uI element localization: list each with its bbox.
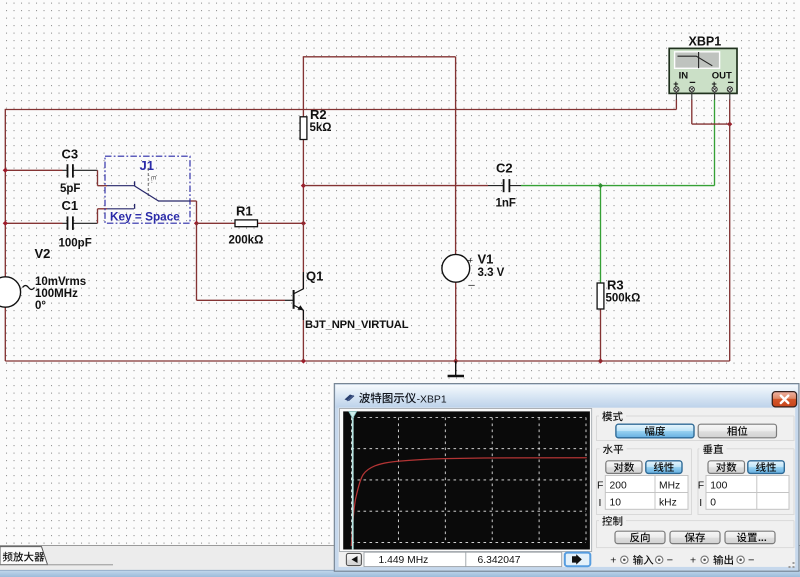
svg-text:10mVrms: 10mVrms — [35, 276, 86, 288]
svg-text:200kΩ: 200kΩ — [229, 235, 264, 247]
capacitor C1 — [59, 198, 92, 250]
svg-text:C3: C3 — [62, 146, 79, 161]
node: input tee at C3 — [3, 168, 8, 173]
readout right arrow button (focused) — [565, 553, 591, 567]
wire: R1 right lead to collector column — [258, 221, 307, 226]
group box 水平 (Horizontal) — [597, 444, 692, 514]
wire: base node down to Q1 base — [197, 223, 294, 300]
wire: VCC loop R2 top to V1 plus — [303, 57, 456, 255]
svg-text:1nF: 1nF — [496, 197, 516, 209]
group box 控制 (Control) — [597, 516, 795, 548]
resistor R3 500k — [597, 277, 640, 309]
svg-text:+: + — [690, 555, 696, 567]
svg-text:E..: E.. — [150, 176, 156, 184]
wire: XBP1 IN- to OUT- ground link — [692, 100, 733, 127]
instrument XBP1 (Bode plotter icon) — [669, 35, 737, 100]
capacitor C2 — [496, 161, 516, 210]
readout left arrow button — [346, 553, 361, 565]
wire: collector column (R2 bottom to Q1 collector) — [301, 140, 306, 290]
node: input tee at C1 — [3, 221, 8, 226]
readout fields — [364, 552, 562, 566]
node A: switch common to base/R1 junction — [190, 201, 199, 226]
button 对数 H (Log) — [606, 461, 642, 474]
svg-text:kHz: kHz — [659, 498, 677, 509]
button 对数 V (Log) — [708, 461, 745, 474]
bode magnitude curve — [351, 458, 587, 546]
sheet tab bar — [0, 546, 800, 571]
svg-text:0°: 0° — [35, 300, 46, 312]
source V2 10mVrms 100MHz AC — [0, 246, 86, 312]
svg-text:100MHz: 100MHz — [35, 288, 78, 300]
svg-text:-XBP1: -XBP1 — [417, 394, 447, 405]
svg-text:...: ... — [758, 532, 767, 544]
wire: ground rail (bottom horizontal) — [5, 358, 729, 363]
window title text 波特图示仪-XBP1 — [359, 393, 447, 406]
svg-text:10: 10 — [610, 498, 622, 509]
resistor R1 200k — [229, 203, 264, 246]
terminal row 输入/输出 — [610, 555, 754, 567]
resize grip — [789, 562, 795, 568]
svg-text:J1: J1 — [140, 158, 154, 173]
plot grid (dashed) — [352, 418, 587, 543]
button 幅度 (Magnitude, selected) — [616, 424, 694, 438]
ground — [448, 361, 464, 376]
svg-text:100: 100 — [710, 480, 727, 491]
svg-text:V1: V1 — [478, 251, 494, 266]
source V1 3.3V — [442, 251, 505, 286]
svg-text:I: I — [699, 497, 702, 509]
button 设置... (Set) — [725, 531, 775, 544]
resistor R2 5k — [300, 107, 331, 140]
button 相位 (Phase) — [698, 424, 776, 438]
svg-text:6.342047: 6.342047 — [478, 555, 521, 566]
svg-text:F: F — [597, 480, 603, 492]
svg-text:IN: IN — [679, 71, 689, 82]
wire: XBP1 OUT- down to ground rail — [729, 100, 731, 362]
svg-text:I: I — [599, 497, 602, 509]
fields F/I horizontal — [597, 476, 688, 510]
svg-text:5kΩ: 5kΩ — [310, 122, 332, 134]
svg-text:V2: V2 — [35, 246, 51, 261]
svg-text:R2: R2 — [310, 107, 327, 122]
wire: R3 bottom to ground rail — [598, 309, 603, 364]
svg-text:XBP1: XBP1 — [689, 35, 722, 49]
svg-text:BJT_NPN_VIRTUAL: BJT_NPN_VIRTUAL — [305, 319, 409, 331]
svg-text:Q1: Q1 — [306, 269, 323, 284]
wire: green output net C2 right to R3 and XBP1 OUT+ — [510, 100, 715, 284]
bottom status strip — [0, 570, 800, 577]
wire: Q1 emitter to ground rail — [302, 310, 304, 361]
transistor Q1 BJT_NPN_VIRTUAL — [294, 269, 409, 331]
svg-text:+: + — [610, 555, 616, 567]
svg-text:−: − — [748, 555, 754, 567]
svg-text:200: 200 — [610, 480, 627, 491]
svg-text:C2: C2 — [496, 161, 513, 176]
group box 模式 (Mode) — [597, 411, 795, 440]
wire: C3 branch — [5, 170, 107, 185]
svg-text:+: + — [468, 256, 474, 267]
svg-text:R3: R3 — [607, 277, 624, 292]
svg-text:F: F — [698, 480, 704, 492]
svg-text:100pF: 100pF — [59, 237, 92, 249]
button 反向 (Reverse) — [615, 531, 665, 543]
wire: C1 branch — [5, 209, 107, 224]
button 线性 V (Linear, selected) — [748, 461, 785, 474]
svg-text:−: − — [667, 555, 673, 567]
wire: R1 left lead — [197, 222, 236, 224]
svg-text:3.3 V: 3.3 V — [478, 267, 505, 279]
svg-text:R1: R1 — [236, 203, 253, 218]
switch J1 (SPDT, Key = Space) — [105, 156, 190, 223]
wire: collector to C2 left — [303, 185, 503, 187]
svg-text:C1: C1 — [62, 198, 79, 213]
wire: V1 bottom to ground rail — [453, 282, 458, 363]
svg-text:0: 0 — [710, 498, 716, 509]
fields F/I vertical — [698, 476, 789, 510]
capacitor C3 — [60, 146, 80, 195]
svg-text:Key = Space: Key = Space — [110, 209, 180, 223]
svg-text:_: _ — [468, 275, 476, 287]
button 保存 (Save) — [670, 531, 720, 543]
wire: input net V2 to XBP1 IN+ (top horizontal) — [5, 100, 676, 110]
close button — [772, 392, 796, 407]
plot panel frame — [340, 409, 592, 552]
cursor — [349, 412, 357, 550]
button 线性 H (Linear, selected) — [646, 461, 682, 474]
wire: left vertical input bus — [4, 109, 6, 361]
Bode plotter window XBP1 — [334, 384, 799, 572]
svg-text:5pF: 5pF — [60, 183, 80, 195]
window title icon — [345, 395, 355, 402]
svg-text:500kΩ: 500kΩ — [606, 293, 641, 305]
svg-text:MHz: MHz — [659, 480, 680, 491]
svg-text:1.449 MHz: 1.449 MHz — [379, 555, 429, 566]
group box 垂直 (Vertical) — [698, 444, 794, 514]
